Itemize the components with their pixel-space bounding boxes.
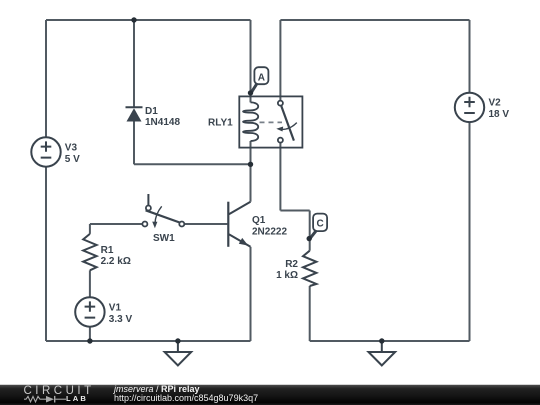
svg-text:2.2 kΩ: 2.2 kΩ [101,256,131,267]
voltage source V3 [31,137,60,166]
wire D1 branch bottom [133,122,135,165]
switch SW1 contacts [142,206,184,227]
svg-text:R2: R2 [285,259,298,270]
relay RLY1 switch lever [281,106,294,141]
wire relay switch top feed [279,20,281,101]
label V3 value [65,142,80,165]
wire V2 bottom rail [469,122,471,341]
wire jog to R2 [280,210,309,212]
wire left rail bottom (V3 to bottom wire) [45,167,47,341]
wire R1 upper stub [89,224,91,234]
relay RLY1 coil [243,102,258,141]
svg-text:V3: V3 [65,142,78,153]
svg-text:3.3 V: 3.3 V [109,314,133,325]
wire bottom right rail [310,340,470,342]
footer bar [0,384,540,405]
wire V1 to bottom rail [89,327,91,341]
transistor Q1 collector diagonal [229,202,251,215]
relay RLY1 switch contacts [278,101,283,143]
label V2 value [489,98,510,120]
wire SW1 to Q1 base [184,223,227,225]
svg-text:D1: D1 [145,106,158,117]
junction ground right [379,338,384,343]
switch SW1 top stub [147,194,149,205]
footer credit text [114,385,200,394]
label R1 value [101,245,131,267]
junction D1 collector node [248,162,253,167]
relay RLY1 actuation arrow [276,123,297,132]
wire relay coil bottom to node [250,141,252,164]
resistor R1 [83,234,96,270]
wire Q1 emitter rail [250,247,252,341]
junction ground left [175,338,180,343]
resistor R2 [303,251,316,286]
junction D1 top [131,17,136,22]
junction node C dot [307,236,312,241]
voltage source V1 [75,297,104,326]
label Q1 value [252,215,287,238]
wire R1 top to SW1 [90,223,143,225]
switch SW1 lever [146,210,180,222]
svg-text:1 kΩ: 1 kΩ [276,270,298,281]
svg-text:2N2222: 2N2222 [252,227,287,238]
svg-text:SW1: SW1 [153,233,175,244]
switch SW1 [142,194,184,228]
CircuitLab logo wordmark [24,386,95,396]
transistor Q1 emitter arrow [239,238,249,246]
wire D1 branch top [133,20,135,107]
node C callout [310,214,327,239]
switch SW1 actuation arrow [155,206,162,223]
label R2 value [276,259,298,281]
transistor Q1 base bar [227,202,229,247]
svg-text:1N4148: 1N4148 [145,117,180,128]
svg-text:18 V: 18 V [489,109,510,120]
svg-text:V1: V1 [109,302,122,313]
svg-text:R1: R1 [101,245,114,256]
relay RLY1 box [239,96,302,147]
CircuitLab logo icon (resistor + diode wire) [22,393,67,403]
wire V2 top [469,20,471,93]
svg-text:Q1: Q1 [252,215,266,226]
svg-text:5 V: 5 V [65,154,80,165]
wire relay switch bottom [279,143,281,211]
voltage source V2 [455,93,484,122]
wire left rail top (V3 to top wire) [45,20,47,137]
label D1 value [145,106,180,128]
wire R2 top feed [309,211,311,251]
wire top left (node to relay coil) [46,19,251,21]
wire R2 bottom [309,286,311,341]
node A callout [252,67,269,92]
junction node A dot [248,90,253,95]
wire bottom left rail [46,340,251,342]
transistor Q1 [228,202,250,247]
svg-text:V2: V2 [489,98,502,109]
junction V1 bottom [87,338,92,343]
ground right [369,341,396,365]
svg-text:A: A [258,72,265,83]
wire D1 to collector node [134,163,251,165]
wire node to Q1 collector [250,164,252,201]
label V1 value [109,302,133,325]
wire R1 to V1 [89,270,91,297]
wire relay coil top feed [250,20,252,102]
transistor Q1 emitter diagonal [229,234,251,247]
relay RLY1 coupling dashed line [260,121,283,123]
svg-text:C: C [316,218,323,229]
diode D1 [126,107,143,121]
svg-text:RLY1: RLY1 [208,117,233,128]
ground left [165,341,192,365]
wire top right (relay to V2) [280,19,469,21]
